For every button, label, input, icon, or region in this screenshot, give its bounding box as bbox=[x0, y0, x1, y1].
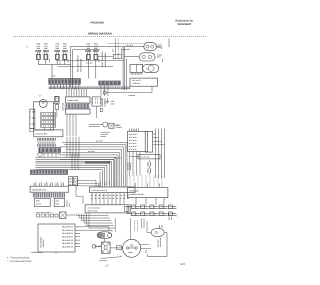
svg-text:48: 48 bbox=[123, 194, 125, 197]
svg-text:40W: 40W bbox=[63, 47, 67, 50]
svg-text:FOOD HARNESS: FOOD HARNESS bbox=[104, 52, 107, 67]
svg-text:LIGHT SW FRESH: LIGHT SW FRESH bbox=[101, 51, 104, 67]
svg-text:WIRING DIAGRAM: WIRING DIAGRAM bbox=[88, 32, 112, 35]
svg-text:81: 81 bbox=[116, 197, 118, 200]
svg-text:81: 81 bbox=[95, 197, 97, 200]
svg-text:CONTROL: CONTROL bbox=[42, 239, 45, 247]
svg-text:ELECTRONIC: ELECTRONIC bbox=[40, 236, 43, 248]
svg-text:3/02: 3/02 bbox=[180, 263, 185, 266]
svg-text:81: 81 bbox=[123, 197, 125, 200]
svg-text:DOOR SW: DOOR SW bbox=[101, 98, 104, 107]
svg-text:BLK-WHT 14: BLK-WHT 14 bbox=[62, 226, 73, 229]
svg-text:81: 81 bbox=[102, 197, 104, 200]
svg-text:48: 48 bbox=[113, 194, 115, 197]
svg-text:48: 48 bbox=[116, 194, 118, 197]
svg-text:* = Non-Illustrated Parts: * = Non-Illustrated Parts bbox=[7, 260, 32, 263]
svg-text:AND HARNESS: AND HARNESS bbox=[80, 58, 83, 72]
svg-text:HARNESS: HARNESS bbox=[104, 97, 107, 106]
svg-text:40W: 40W bbox=[55, 47, 59, 50]
svg-text:48: 48 bbox=[109, 194, 111, 197]
svg-text:BLK-WHT 14: BLK-WHT 14 bbox=[62, 232, 73, 235]
svg-text:48: 48 bbox=[95, 194, 97, 197]
svg-text:FRS26ZNH: FRS26ZNH bbox=[91, 21, 105, 24]
svg-text:48: 48 bbox=[105, 194, 107, 197]
svg-text:BLK-WHT 14: BLK-WHT 14 bbox=[62, 242, 73, 245]
svg-text:81: 81 bbox=[105, 197, 107, 200]
svg-text:Publication No.: Publication No. bbox=[176, 20, 195, 23]
svg-text:5995398647: 5995398647 bbox=[178, 23, 193, 26]
svg-text:SEE NOTE: SEE NOTE bbox=[132, 79, 141, 82]
svg-text:CONTROL: CONTROL bbox=[132, 82, 140, 85]
svg-text:40W: 40W bbox=[44, 47, 48, 50]
svg-text:DEF TMR: DEF TMR bbox=[62, 102, 65, 110]
svg-text:BLK-WHT 14: BLK-WHT 14 bbox=[62, 236, 73, 239]
svg-text:81: 81 bbox=[109, 197, 111, 200]
svg-text:BLK-WHT 14: BLK-WHT 14 bbox=[62, 229, 73, 232]
svg-text:FRZ LIGHT SWITCH: FRZ LIGHT SWITCH bbox=[77, 54, 80, 72]
svg-text:# = Fast-moving Parts: # = Fast-moving Parts bbox=[7, 256, 30, 259]
svg-text:BLK-WHT 14: BLK-WHT 14 bbox=[62, 245, 73, 248]
svg-text:81: 81 bbox=[113, 197, 115, 200]
svg-text:BLK-WHT 14: BLK-WHT 14 bbox=[62, 239, 73, 242]
svg-text:48: 48 bbox=[102, 194, 104, 197]
svg-text:40W: 40W bbox=[36, 47, 40, 50]
